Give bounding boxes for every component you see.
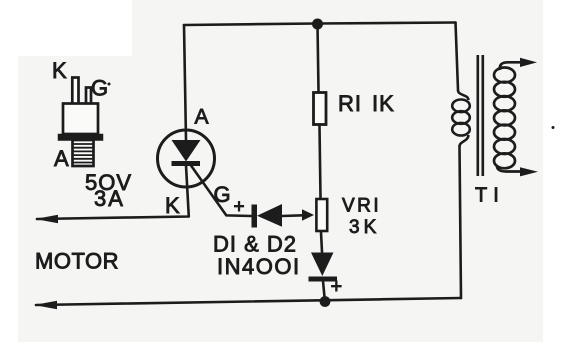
svg-text:G: G [91,76,108,101]
svg-text:IK: IK [372,91,395,116]
svg-text:TI: TI [475,185,505,207]
svg-text:3K: 3K [349,217,380,238]
svg-text:+: + [234,197,245,218]
svg-text:DI & D2: DI & D2 [213,232,297,257]
svg-text:K: K [165,193,180,218]
svg-text:IN4OOI: IN4OOI [217,254,301,279]
svg-text:+: + [331,276,343,298]
svg-text:G: G [214,182,231,207]
svg-text:3A: 3A [94,186,125,211]
svg-text:VRI: VRI [342,196,381,217]
svg-text:A: A [195,106,209,129]
svg-text:MOTOR: MOTOR [35,249,119,274]
svg-text:RI: RI [338,91,362,116]
svg-text:K: K [52,58,67,83]
svg-text:A: A [54,146,69,171]
